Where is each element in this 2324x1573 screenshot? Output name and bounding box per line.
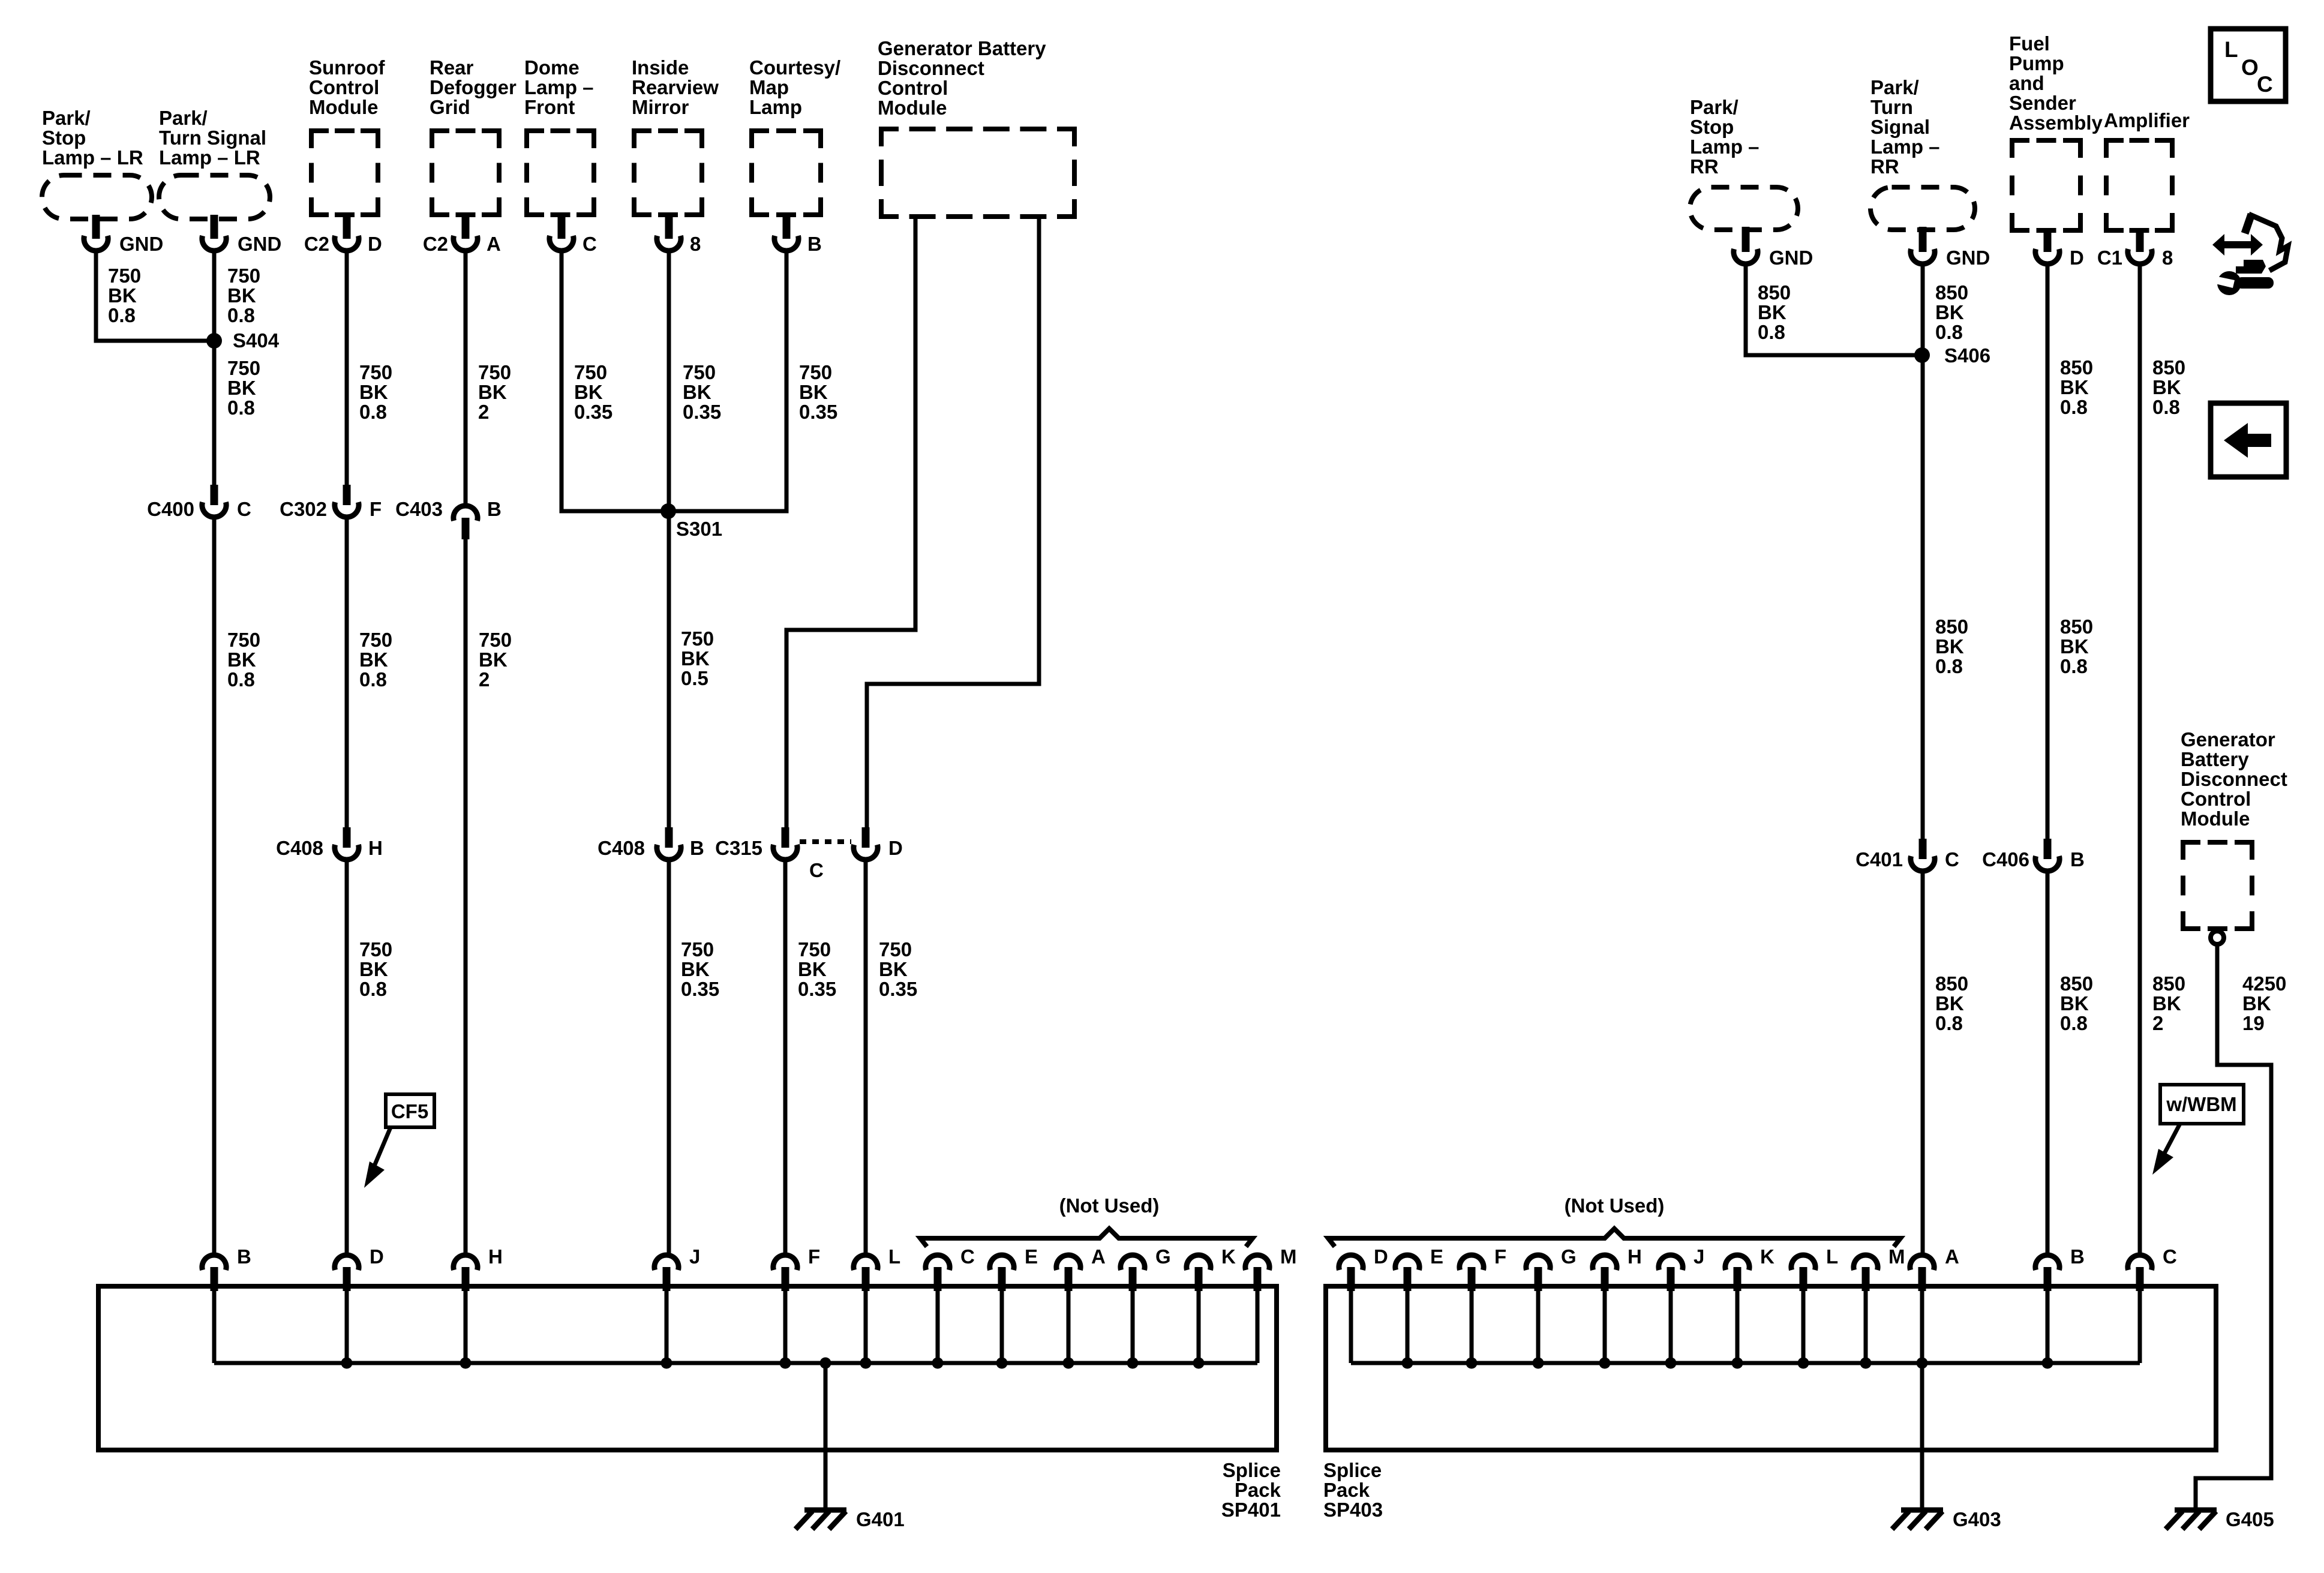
connector C408 pin B (597, 827, 704, 860)
wire below C406 to splice pack pin B (2046, 871, 2050, 1254)
svg-text:Pump: Pump (2009, 52, 2064, 74)
svg-text:Battery: Battery (2181, 748, 2249, 770)
svg-text:Park/: Park/ (159, 107, 208, 129)
svg-text:BK: BK (359, 649, 388, 671)
svg-text:750: 750 (227, 629, 260, 651)
brace (Not Used) over SP403 unused pins (1328, 1194, 1900, 1247)
svg-text:G: G (1155, 1245, 1171, 1268)
svg-text:8: 8 (2162, 247, 2173, 269)
svg-text:0.8: 0.8 (1758, 321, 1785, 343)
svg-text:BK: BK (359, 381, 388, 403)
junction dot at SP403 pin M (1860, 1358, 1872, 1369)
wire Amplifier 8 down to splice pack pin C (2138, 265, 2142, 1254)
svg-text:BK: BK (227, 649, 256, 671)
svg-text:Rearview: Rearview (632, 76, 719, 98)
svg-text:Turn Signal: Turn Signal (159, 127, 266, 149)
pin C of Dome Lamp Front (550, 215, 597, 255)
dashed link of connector C315 (800, 839, 851, 844)
component Park/Stop Lamp - RR (dashed stadium) (1690, 96, 1798, 230)
svg-text:850: 850 (2060, 356, 2093, 379)
svg-text:0.8: 0.8 (2060, 655, 2088, 677)
svg-text:Assembly: Assembly (2009, 112, 2103, 134)
svg-text:850: 850 (1935, 972, 1968, 995)
junction dot at SP403 pin K (1732, 1358, 1743, 1369)
wire Rear Defogger A down to C403 (464, 252, 468, 507)
svg-text:750: 750 (683, 361, 716, 383)
svg-text:(Not Used): (Not Used) (1565, 1194, 1665, 1217)
svg-text:750: 750 (359, 629, 392, 651)
svg-text:G403: G403 (1953, 1508, 2001, 1530)
svg-text:BK: BK (574, 381, 603, 403)
grommet circle of right GBDCM (2211, 931, 2224, 944)
svg-text:Grid: Grid (430, 96, 470, 118)
svg-text:0.8: 0.8 (227, 304, 255, 326)
svg-text:0.8: 0.8 (359, 978, 387, 1000)
label 750 BK 0.35 (below C315 C) (798, 938, 836, 1000)
wire below C408 B to splice pack pin J (667, 860, 671, 1254)
svg-text:BK: BK (108, 284, 137, 307)
svg-text:Defogger: Defogger (430, 76, 517, 98)
svg-text:Control: Control (878, 77, 948, 99)
svg-text:CF5: CF5 (391, 1100, 428, 1122)
svg-text:BK: BK (2060, 376, 2089, 398)
svg-text:C408: C408 (276, 837, 323, 859)
svg-text:0.35: 0.35 (574, 401, 612, 423)
svg-text:Park/: Park/ (1870, 76, 1919, 98)
splice pack SP403 pin A (1910, 1245, 1959, 1363)
svg-text:BK: BK (2060, 992, 2089, 1014)
component Generator Battery Disconnect Control Module (top dashed box) (878, 37, 1077, 219)
svg-text:BK: BK (227, 284, 256, 307)
svg-text:0.8: 0.8 (2152, 396, 2180, 418)
svg-text:BK: BK (798, 958, 827, 980)
label 750 BK 0.8 (below S404) (227, 357, 260, 419)
svg-text:Generator Battery: Generator Battery (878, 37, 1046, 59)
label 750 BK 0.8 (sunroof wire) (359, 361, 392, 423)
svg-text:0.8: 0.8 (227, 397, 255, 419)
svg-text:Sender: Sender (2009, 92, 2076, 114)
svg-text:A: A (1091, 1245, 1106, 1268)
connector C401 pin C (1855, 839, 1959, 871)
svg-text:0.35: 0.35 (681, 978, 719, 1000)
wire right GBDCM to G405 (2196, 944, 2271, 1511)
label 850 BK 0.8 (amplifier wire) (2152, 356, 2185, 418)
svg-text:750: 750 (359, 361, 392, 383)
wire Inside Rearview Mirror 8 down through S301 to C408 B (667, 252, 671, 827)
junction dot at SP401 pin A (1063, 1358, 1074, 1369)
junction dot at SP403 pin H (1599, 1358, 1611, 1369)
svg-text:0.35: 0.35 (683, 401, 721, 423)
brace (Not Used) over SP401 unused pins (920, 1194, 1253, 1247)
svg-text:C: C (960, 1245, 975, 1268)
junction dot at SP403 pin J (1665, 1358, 1677, 1369)
svg-text:Signal: Signal (1870, 116, 1930, 138)
svg-text:Module: Module (878, 97, 947, 119)
svg-text:Generator: Generator (2181, 728, 2275, 751)
svg-text:BK: BK (2152, 376, 2181, 398)
splice pack SP401 pin E (990, 1245, 1038, 1363)
svg-text:0.5: 0.5 (681, 667, 708, 689)
svg-text:BK: BK (479, 649, 508, 671)
connector C302 pin F (280, 485, 382, 520)
svg-text:GND: GND (1769, 247, 1813, 269)
connector C315 pin D (854, 827, 903, 860)
svg-text:Inside: Inside (632, 56, 689, 79)
svg-text:C401: C401 (1855, 848, 1903, 870)
junction dot of G401 riser (820, 1358, 831, 1369)
pin A connector C2 of Rear Defogger Grid (423, 215, 501, 255)
svg-text:C: C (2257, 72, 2273, 97)
splice pack SP401 pin H (454, 1245, 503, 1363)
svg-text:2: 2 (479, 668, 490, 691)
svg-text:C: C (237, 498, 251, 520)
svg-text:Stop: Stop (42, 127, 86, 149)
flag CF5 with arrow (364, 1094, 434, 1188)
svg-text:0.35: 0.35 (879, 978, 917, 1000)
svg-text:750: 750 (879, 938, 912, 960)
svg-text:C: C (809, 859, 824, 881)
wire Fuel Pump D down to C406 (2046, 265, 2050, 839)
splice pack SP401 pin C (926, 1245, 975, 1363)
pin 8 connector C1 of Amplifier (2097, 232, 2173, 269)
splice S301 (660, 503, 722, 540)
svg-text:S406: S406 (1944, 344, 1990, 367)
splice pack SP403 pin D (1339, 1245, 1388, 1363)
svg-text:Disconnect: Disconnect (2181, 768, 2287, 790)
junction dot at SP401 pin D (341, 1358, 353, 1369)
junction dot at SP401 pin F (780, 1358, 791, 1369)
svg-text:BK: BK (799, 381, 828, 403)
svg-text:750: 750 (227, 265, 260, 287)
svg-text:BK: BK (1935, 301, 1964, 323)
svg-text:0.8: 0.8 (2060, 1012, 2088, 1034)
svg-text:850: 850 (2152, 972, 2185, 995)
svg-text:J: J (689, 1245, 700, 1268)
wire below C408 H to splice pack pin D (345, 860, 349, 1254)
junction dot at SP403 pin A (1917, 1358, 1928, 1369)
svg-text:D: D (888, 837, 903, 859)
svg-text:0.8: 0.8 (1935, 655, 1963, 677)
svg-text:GND: GND (238, 233, 281, 255)
wire below C315 C to splice pack pin F (783, 860, 788, 1254)
component Park/Stop Lamp - LR (dashed stadium) (42, 107, 152, 219)
svg-text:G401: G401 (856, 1508, 905, 1530)
junction dot at SP403 pin E (1402, 1358, 1413, 1369)
svg-text:RR: RR (1870, 155, 1899, 178)
splice S406 (1914, 344, 1990, 367)
junction dot at SP401 pin J (661, 1358, 672, 1369)
svg-text:Lamp: Lamp (749, 96, 802, 118)
pin GND of Park/Stop Lamp RR (1734, 227, 1813, 269)
svg-text:Pack: Pack (1323, 1479, 1370, 1501)
label 850 BK 0.8 (below S406) (1935, 616, 1968, 677)
bus bar of SP401 (214, 1361, 1257, 1365)
svg-text:Courtesy/: Courtesy/ (749, 56, 840, 79)
connector C403 pin B (395, 498, 502, 539)
label 750 BK 2 (defogger wire) (478, 361, 511, 423)
svg-text:0.35: 0.35 (799, 401, 837, 423)
svg-text:BK: BK (2242, 992, 2271, 1014)
svg-text:BK: BK (227, 377, 256, 399)
svg-text:and: and (2009, 72, 2044, 94)
svg-text:0.8: 0.8 (227, 668, 255, 691)
svg-text:w/WBM: w/WBM (2166, 1093, 2236, 1115)
wire SP401 to G401 (824, 1363, 828, 1511)
svg-text:O: O (2241, 55, 2259, 80)
svg-text:Splice: Splice (1323, 1459, 1382, 1481)
svg-text:A: A (1945, 1245, 1959, 1268)
svg-text:B: B (690, 837, 704, 859)
splice pack SP401 box (98, 1286, 1281, 1521)
wire GBDCM right output down-jog-down to C315 D (867, 218, 1039, 827)
svg-text:B: B (2070, 848, 2085, 870)
junction dot at SP401 pin L (860, 1358, 872, 1369)
label 750 BK 0.8 (below C400) (227, 629, 260, 691)
svg-text:L: L (1826, 1245, 1838, 1268)
svg-text:Mirror: Mirror (632, 96, 689, 118)
svg-text:8: 8 (690, 233, 701, 255)
splice pack SP401 pin B (202, 1245, 251, 1363)
splice pack SP403 box (1323, 1286, 2216, 1521)
label 850 BK 0.8 (fuel pump wire) (2060, 356, 2093, 418)
svg-text:M: M (1888, 1245, 1905, 1268)
svg-text:RR: RR (1690, 155, 1719, 178)
svg-text:K: K (1760, 1245, 1774, 1268)
svg-text:Lamp – LR: Lamp – LR (159, 146, 260, 169)
junction dot at SP401 pin E (996, 1358, 1008, 1369)
svg-text:BK: BK (683, 381, 711, 403)
svg-text:0.8: 0.8 (2060, 396, 2088, 418)
svg-text:Turn: Turn (1870, 96, 1913, 118)
wire Park/Turn LR GND down to C400 (212, 252, 217, 485)
label 850 BK 0.8 (below C406) (2060, 972, 2093, 1034)
svg-text:L: L (2224, 37, 2238, 62)
wire below C403 to splice pack pin H (464, 538, 468, 1254)
junction dot at SP403 pin G (1533, 1358, 1544, 1369)
svg-text:G: G (1561, 1245, 1577, 1268)
svg-text:850: 850 (2152, 356, 2185, 379)
bus bar of SP403 (1351, 1361, 2140, 1365)
svg-text:Pack: Pack (1235, 1479, 1281, 1501)
splice pack SP401 pin F (773, 1245, 820, 1363)
svg-text:BK: BK (1758, 301, 1786, 323)
splice pack SP401 pin M (1245, 1245, 1297, 1363)
icon LOC box (2211, 29, 2286, 101)
splice S404 (206, 329, 280, 352)
splice pack SP403 pin K (1725, 1245, 1774, 1363)
wire GBDCM left output down-jog-down to C315 C (786, 218, 915, 827)
component Rear Defogger Grid (dashed box) (430, 56, 517, 217)
svg-text:750: 750 (799, 361, 832, 383)
svg-text:H: H (488, 1245, 503, 1268)
svg-text:750: 750 (359, 938, 392, 960)
splice pack SP403 pin H (1593, 1245, 1642, 1363)
label 750 BK 0.35 (mirror wire) (683, 361, 721, 423)
label 850 BK 0.8 (stop RR wire) (1758, 281, 1791, 343)
svg-text:C406: C406 (1982, 848, 2029, 870)
label 850 BK 0.8 (turn RR wire) (1935, 281, 1968, 343)
svg-text:Park/: Park/ (42, 107, 91, 129)
svg-text:19: 19 (2242, 1012, 2265, 1034)
pin GND of Park/Turn Signal Lamp RR (1911, 227, 1990, 269)
svg-text:BK: BK (1935, 992, 1964, 1014)
svg-text:Sunroof: Sunroof (309, 56, 385, 79)
wire Park/Stop LR GND to S404 (96, 252, 214, 341)
component Generator Battery Disconnect Control Module (right dashed box) (2181, 728, 2287, 931)
junction dot at SP401 pin K (1193, 1358, 1205, 1369)
junction dot at SP401 pin G (1127, 1358, 1139, 1369)
svg-text:850: 850 (1758, 281, 1791, 304)
junction dot at SP403 pin L (1798, 1358, 1809, 1369)
component Park/Turn Signal Lamp - LR (dashed stadium) (159, 107, 270, 219)
label 850 BK 0.8 (fuel pump wire above C406) (2060, 616, 2093, 677)
component Dome Lamp - Front (dashed box) (524, 56, 596, 217)
splice pack SP401 pin J (654, 1245, 700, 1363)
ground G403 (1892, 1508, 2001, 1530)
svg-text:BK: BK (478, 381, 507, 403)
svg-text:4250: 4250 (2242, 972, 2286, 995)
pin 8 of Inside Rearview Mirror (657, 215, 701, 255)
splice pack SP401 pin D (335, 1245, 384, 1363)
svg-text:750: 750 (108, 265, 141, 287)
svg-text:D: D (1374, 1245, 1388, 1268)
svg-text:F: F (808, 1245, 820, 1268)
svg-text:BK: BK (681, 958, 710, 980)
svg-text:Splice: Splice (1223, 1459, 1281, 1481)
label 750 BK 0.35 (dome lamp wire) (574, 361, 612, 423)
svg-text:Disconnect: Disconnect (878, 57, 984, 79)
wire Park/Turn RR GND down through S406 to C401 (1921, 265, 1925, 839)
wire below C400 to splice pack pin B (212, 517, 217, 1254)
svg-text:C403: C403 (395, 498, 443, 520)
svg-text:Dome: Dome (524, 56, 580, 79)
svg-text:H: H (368, 837, 383, 859)
connector C408 pin H (276, 827, 383, 860)
splice pack SP401 pin K (1187, 1245, 1236, 1363)
svg-text:850: 850 (1935, 616, 1968, 638)
component Fuel Pump and Sender Assembly (dashed box) (2009, 32, 2103, 233)
wire Dome Lamp C to S301 (562, 252, 667, 511)
svg-text:BK: BK (2060, 635, 2089, 658)
svg-text:D: D (368, 233, 382, 255)
label 4250 BK 19 (right GBDCM wire) (2242, 972, 2286, 1034)
pin GND of Park/Stop Lamp LR (84, 215, 163, 255)
splice pack SP403 pin M (1854, 1245, 1905, 1363)
svg-text:Front: Front (524, 96, 575, 118)
svg-text:Rear: Rear (430, 56, 474, 79)
svg-text:C400: C400 (147, 498, 194, 520)
svg-text:S404: S404 (233, 329, 280, 352)
svg-text:Stop: Stop (1690, 116, 1734, 138)
label 750 BK 0.8 (below C408 H) (359, 938, 392, 1000)
svg-text:0.8: 0.8 (359, 668, 387, 691)
pin B of Courtesy/Map Lamp (774, 215, 822, 255)
connector C315 pin C (715, 827, 824, 881)
svg-text:GND: GND (119, 233, 163, 255)
svg-text:Map: Map (749, 76, 789, 98)
svg-text:C302: C302 (280, 498, 327, 520)
svg-text:Fuel: Fuel (2009, 32, 2050, 55)
svg-text:D: D (370, 1245, 384, 1268)
svg-text:750: 750 (574, 361, 607, 383)
svg-text:GND: GND (1946, 247, 1990, 269)
svg-text:2: 2 (2152, 1012, 2163, 1034)
svg-text:BK: BK (2152, 992, 2181, 1014)
splice pack SP401 pin L (854, 1245, 900, 1363)
svg-text:M: M (1280, 1245, 1297, 1268)
wire below C302 to C408 (345, 517, 349, 827)
svg-text:L: L (888, 1245, 900, 1268)
wire SP403 pin A to G403 (1920, 1363, 1924, 1511)
svg-text:850: 850 (1935, 281, 1968, 304)
svg-text:E: E (1430, 1245, 1443, 1268)
svg-text:B: B (807, 233, 822, 255)
svg-text:750: 750 (478, 361, 511, 383)
splice pack SP403 pin C (2128, 1245, 2177, 1363)
label 850 BK 2 (amplifier wire lower) (2152, 972, 2185, 1034)
flag w/WBM with arrow (2152, 1085, 2244, 1175)
ground G405 (2166, 1508, 2274, 1530)
svg-text:C315: C315 (715, 837, 762, 859)
svg-text:Lamp –: Lamp – (1690, 136, 1759, 158)
wire below C315 D to splice pack pin L (864, 860, 868, 1254)
junction dot at SP403 pin B (2042, 1358, 2053, 1369)
svg-text:2: 2 (478, 401, 489, 423)
svg-text:B: B (2070, 1245, 2085, 1268)
svg-text:BK: BK (359, 958, 388, 980)
icon left-arrow box (2211, 403, 2286, 477)
svg-text:0.8: 0.8 (108, 304, 136, 326)
svg-text:850: 850 (2060, 972, 2093, 995)
svg-text:750: 750 (479, 629, 512, 651)
svg-text:Module: Module (2181, 807, 2250, 830)
component Courtesy/Map Lamp (dashed box) (749, 56, 840, 217)
splice pack SP401 pin A (1056, 1245, 1106, 1363)
svg-text:E: E (1025, 1245, 1038, 1268)
svg-text:H: H (1628, 1245, 1642, 1268)
svg-text:S301: S301 (676, 518, 722, 540)
svg-text:F: F (1494, 1245, 1506, 1268)
svg-text:D: D (2070, 247, 2084, 269)
svg-text:B: B (237, 1245, 251, 1268)
svg-text:Module: Module (309, 96, 378, 118)
svg-text:C2: C2 (304, 233, 329, 255)
splice pack SP403 pin B (2035, 1245, 2085, 1363)
component Sunroof Control Module (dashed box) (309, 56, 385, 217)
ground G401 (795, 1508, 905, 1530)
svg-text:B: B (487, 498, 502, 520)
component Inside Rearview Mirror (dashed box) (632, 56, 719, 217)
svg-text:C: C (1945, 848, 1959, 870)
svg-text:C: C (2163, 1245, 2177, 1268)
svg-text:750: 750 (227, 357, 260, 379)
junction dot at SP401 pin H (460, 1358, 472, 1369)
svg-text:C408: C408 (597, 837, 645, 859)
wire Sunroof D down to C302 (345, 252, 349, 485)
svg-text:0.8: 0.8 (1935, 1012, 1963, 1034)
label 750 BK 0.35 (below C315 D) (879, 938, 917, 1000)
svg-text:Park/: Park/ (1690, 96, 1739, 118)
label 750 BK 0.8 (turn signal wire) (227, 265, 260, 326)
svg-text:G405: G405 (2226, 1508, 2274, 1530)
label 750 BK 0.5 (below S301) (681, 628, 714, 689)
svg-text:Control: Control (309, 76, 379, 98)
svg-text:Lamp –: Lamp – (1870, 136, 1940, 158)
svg-text:C: C (582, 233, 597, 255)
wire Courtesy/Map Lamp B down to S301 junction (668, 252, 786, 511)
svg-text:Lamp –: Lamp – (524, 76, 594, 98)
label 750 BK 0.8 (stop lamp wire) (108, 265, 141, 326)
